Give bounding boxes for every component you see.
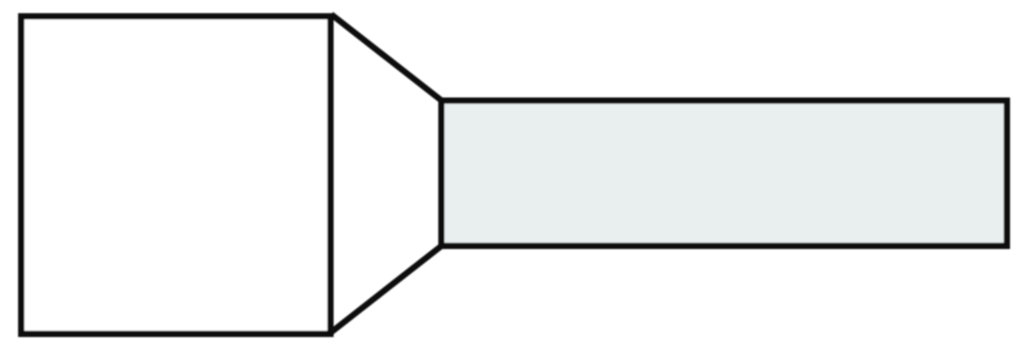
funnel top edge (diagonal) [331, 14, 441, 100]
funnel bottom edge (diagonal) [331, 246, 441, 332]
ferrule metal tube (gray sleeve) [441, 101, 1007, 246]
insulation collar (square) [21, 16, 330, 334]
